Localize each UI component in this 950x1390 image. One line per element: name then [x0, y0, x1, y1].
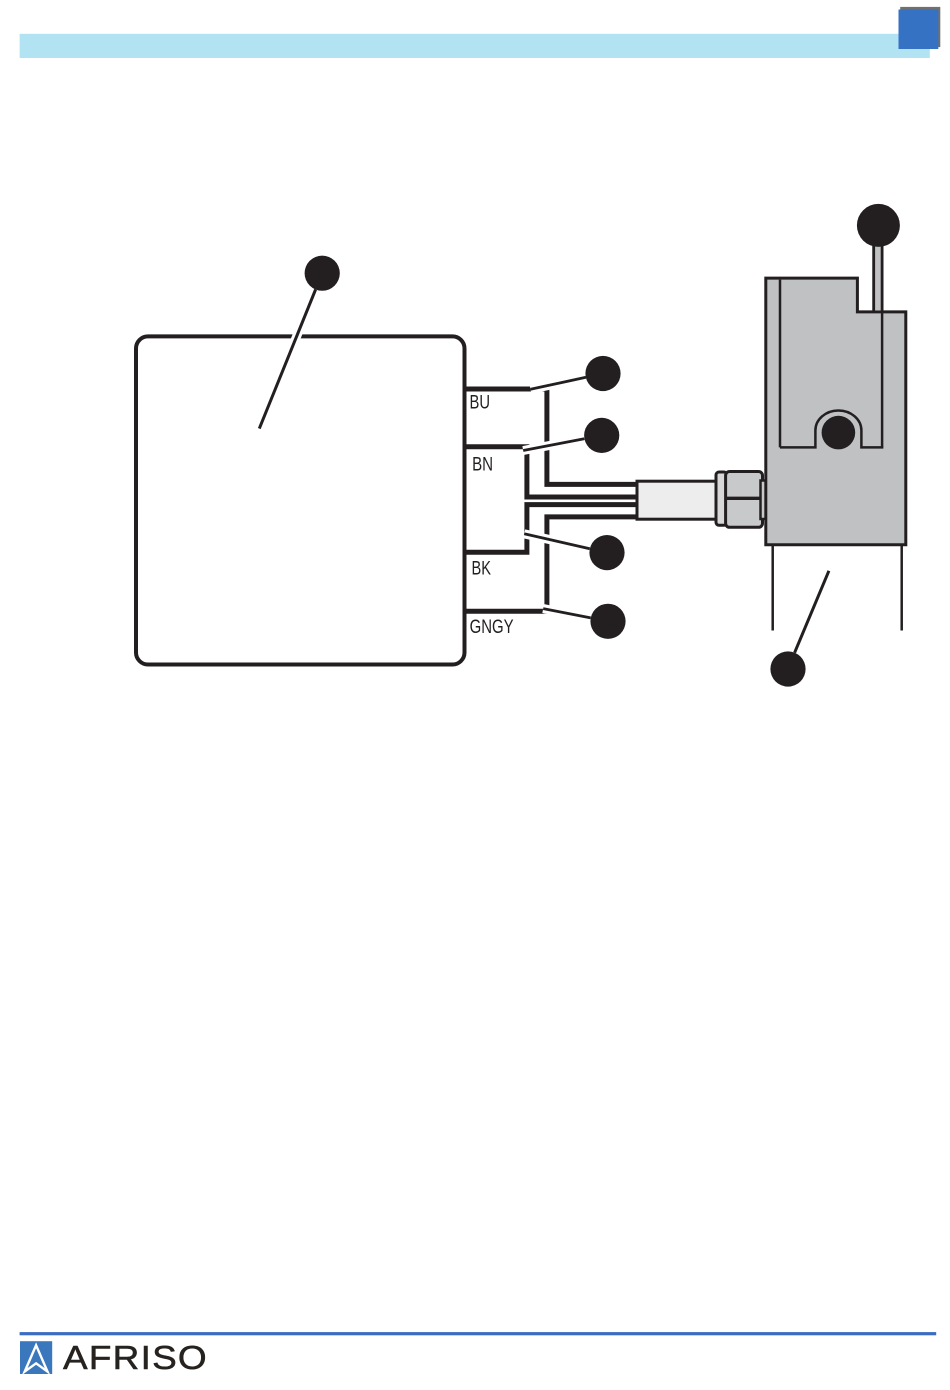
lever ball	[857, 204, 900, 247]
callout circle BU	[585, 356, 620, 391]
gland flange at switch body	[761, 481, 767, 520]
svg-text:AFRISO: AFRISO	[63, 1340, 208, 1377]
switch inner right edge	[881, 313, 884, 447]
callout circle junction box	[305, 256, 340, 291]
junction box (device body outline)	[136, 336, 465, 664]
header light blue bar	[20, 34, 930, 58]
svg-text:BK: BK	[472, 559, 492, 580]
svg-text:GNGY: GNGY	[470, 617, 514, 638]
header corner shadow square	[900, 7, 940, 47]
footer rule	[20, 1332, 937, 1335]
callout circle BN	[584, 418, 619, 453]
callout leader BU	[531, 377, 587, 389]
cable gland washer	[716, 472, 727, 525]
footer logo arrow	[25, 1345, 48, 1371]
wire BK (black wire path via inner vertical to cable)	[463, 505, 640, 553]
svg-text:BU: BU	[470, 393, 491, 414]
limit switch body	[766, 278, 906, 545]
roller plunger	[822, 416, 856, 450]
footer logo square	[20, 1341, 52, 1374]
callout leader BN	[523, 439, 584, 451]
callout circle switch	[770, 651, 805, 686]
callout circle GNGY	[590, 604, 625, 639]
callout leader to junction box	[259, 290, 315, 429]
callout leader GNGY	[543, 609, 591, 618]
lever rod	[872, 235, 883, 310]
mounting leg left	[771, 546, 774, 631]
mounting leg right	[900, 546, 903, 631]
switch inner bottom edge with roller notch	[780, 411, 883, 448]
switch inner left edge	[779, 280, 782, 448]
cable gland nut middle edge	[726, 497, 763, 500]
svg-text:BN: BN	[472, 455, 493, 476]
wire BU (blue wire path: stub, down via outer vertical, to cable)	[463, 389, 640, 484]
wire BN (brown wire path via inner vertical to cable)	[463, 447, 640, 497]
cable sheath	[637, 481, 716, 519]
callout leader switch	[795, 571, 829, 653]
header corner blue square	[899, 10, 939, 50]
cable gland nut	[726, 472, 763, 528]
callout leader BK	[524, 534, 590, 549]
callout circle BK	[589, 535, 624, 570]
wire GNGY (green-yellow wire path via outer vertical to cable)	[463, 517, 640, 611]
